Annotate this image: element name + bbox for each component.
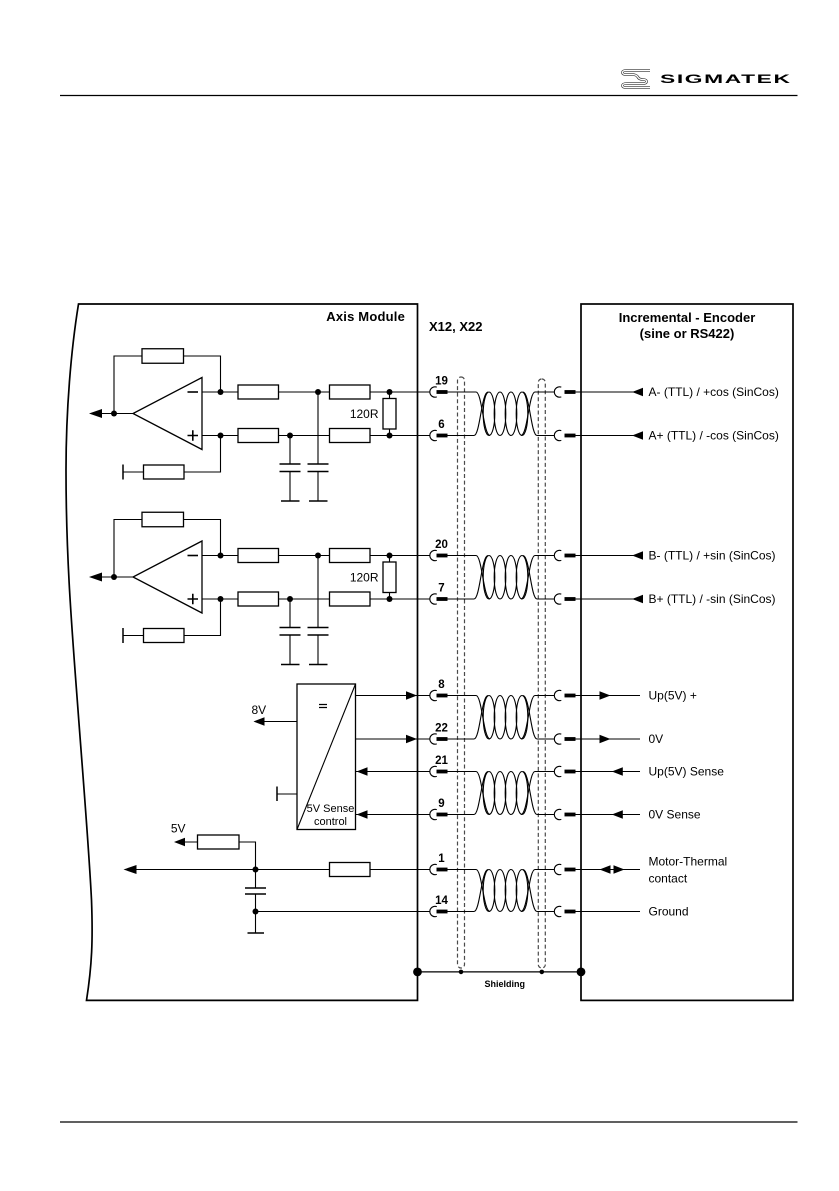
svg-text:21: 21 [435, 755, 448, 767]
output arrow U1 [89, 409, 102, 418]
wire non-inverting input row U2 [202, 598, 430, 600]
capacitor C2U1 plates [308, 464, 329, 472]
resistor pullup 5V [198, 835, 240, 849]
resistor feedback U1 [142, 349, 184, 364]
op-amp U2 minus sign [188, 555, 199, 557]
wire encoder row y=771.5 [576, 771, 641, 773]
bias terminal stub U1 [122, 465, 124, 480]
op-amp U1 feedback wire [114, 356, 221, 414]
svg-text:8: 8 [438, 679, 445, 691]
pin 1 contact (axis side) [430, 853, 448, 875]
svg-text:5V Sense: 5V Sense [307, 803, 355, 815]
wire encoder row y=739 [576, 738, 641, 740]
resistor series+ U1 [330, 429, 371, 443]
svg-text:(sine or RS422): (sine or RS422) [640, 326, 735, 341]
op-amp U2 feedback wire [114, 520, 221, 578]
wire 5V pullup [176, 842, 256, 870]
capacitor C1U2 wire [289, 599, 291, 665]
capacitor C1U1 wire [289, 436, 291, 502]
arrow left row y=814.5 [612, 810, 623, 818]
arrow motor-thermal left [124, 865, 137, 874]
pin 8 contact (axis side) [430, 679, 448, 701]
junction dots U2 [111, 553, 393, 603]
header rule [60, 95, 798, 97]
arrow left row y=771.5 [612, 767, 623, 775]
arrow 5V [174, 838, 185, 846]
encoder pin contact row y=771.5 [554, 766, 575, 776]
svg-text:B- (TTL) / +sin (SinCos): B- (TTL) / +sin (SinCos) [649, 549, 776, 563]
twisted pair cable A [448, 392, 555, 436]
op-amp U2 output wire [99, 576, 133, 578]
arrow left row y=435.5 [632, 431, 643, 439]
svg-text:Incremental - Encoder: Incremental - Encoder [619, 310, 756, 325]
junction dots thermal section [253, 867, 259, 915]
svg-text:contact: contact [649, 872, 688, 886]
op-amp U2 plus sign [188, 594, 199, 604]
resistor series- U2 [330, 549, 371, 563]
op-amp U1 output wire [99, 413, 133, 415]
svg-text:8V: 8V [251, 703, 266, 717]
wire encoder row y=695.5 [576, 695, 641, 697]
twisted pair cable supply [448, 696, 555, 740]
double arrow row y=869.5 [600, 865, 611, 873]
twisted pair cable thermal [448, 870, 555, 912]
arrow 8V [254, 717, 265, 725]
resistor input- U2 [238, 549, 279, 563]
svg-text:Up(5V) +: Up(5V) + [649, 689, 697, 703]
resistor series- U1 [330, 385, 371, 399]
capacitor C3 plates [245, 888, 266, 894]
resistor input+ U2 [238, 592, 279, 606]
svg-text:19: 19 [435, 375, 448, 387]
encoder box outline [581, 304, 793, 1000]
wire encoder row y=911.5 [576, 911, 641, 913]
svg-text:14: 14 [435, 895, 448, 907]
encoder pin contact row y=392 [554, 387, 575, 397]
svg-text:20: 20 [435, 539, 448, 551]
pin 14 contact (axis side) [430, 895, 449, 917]
shielding junction dot right [577, 968, 586, 977]
encoder pin contact row y=695.5 [554, 690, 575, 700]
twisted pair cable B [448, 556, 555, 600]
wire 8V input [256, 721, 297, 723]
wire ground row pin 14 [256, 911, 430, 913]
svg-text:22: 22 [435, 722, 448, 734]
junction dots U1 [111, 389, 393, 439]
pin 6 contact (axis side) [430, 419, 448, 441]
wire 5V supply to pin 8 [356, 695, 430, 697]
shielding bus wire [418, 971, 582, 973]
capacitor C2U1 ground tick [309, 500, 328, 502]
bias network wire U2 [123, 599, 221, 636]
svg-text:0V: 0V [649, 732, 664, 746]
pin 20 contact (axis side) [430, 539, 448, 561]
capacitor C2U2 plates [308, 628, 329, 636]
resistor 120R U1 [383, 399, 396, 430]
shielding junction dot left [413, 968, 422, 977]
wire encoder row y=599 [576, 598, 641, 600]
wire non-inverting input row U1 [202, 435, 430, 437]
ground stub bar [276, 787, 278, 802]
encoder pin contact row y=911.5 [554, 906, 575, 916]
termination wire U1 [389, 392, 391, 436]
svg-text:A+ (TTL) / -cos (SinCos): A+ (TTL) / -cos (SinCos) [649, 429, 779, 443]
bias network wire U1 [123, 436, 221, 473]
op-amp U1 minus sign [188, 391, 199, 393]
svg-text:5V: 5V [171, 822, 186, 836]
arrow into control block row 21 [357, 767, 368, 775]
encoder pin contact row y=555.5 [554, 550, 575, 560]
op-amp U1 triangle [133, 378, 202, 450]
arrow to pin 22 [406, 735, 417, 743]
svg-text:control: control [314, 816, 347, 828]
svg-text:Ground: Ground [649, 905, 689, 919]
cable shield dashed oval 1 [458, 377, 465, 968]
svg-text:SIGMATEK: SIGMATEK [660, 72, 791, 85]
arrow left row y=555.5 [632, 551, 643, 559]
svg-text:120R: 120R [350, 407, 379, 421]
wire inverting input row U1 [202, 391, 430, 393]
svg-text:A- (TTL) / +cos (SinCos): A- (TTL) / +cos (SinCos) [649, 385, 779, 399]
encoder pin contact row y=814.5 [554, 809, 575, 819]
svg-text:6: 6 [438, 419, 444, 431]
encoder pin contact row y=739 [554, 734, 575, 744]
capacitor C2U1 wire [317, 392, 319, 501]
wire motor-thermal row pin 1 [125, 869, 430, 871]
svg-text:Shielding: Shielding [485, 979, 526, 989]
op-amp U1 plus sign [188, 430, 199, 440]
svg-text:7: 7 [438, 582, 444, 594]
wire encoder row y=869.5 [576, 869, 641, 871]
footer rule [60, 1121, 798, 1123]
twisted pair cable sense [448, 772, 555, 815]
capacitor C1U2 ground tick [281, 664, 300, 666]
resistor series+ U2 [330, 592, 371, 606]
capacitor C1U1 ground tick [281, 500, 300, 502]
resistor bias U2 [144, 629, 185, 643]
encoder pin contact row y=435.5 [554, 430, 575, 440]
capacitor C1U2 plates [280, 628, 301, 636]
capacitor C2U2 wire [317, 556, 319, 665]
svg-text:1: 1 [438, 853, 445, 865]
capacitor C3 wires [255, 870, 257, 934]
svg-text:B+ (TTL) / -sin (SinCos): B+ (TTL) / -sin (SinCos) [649, 592, 776, 606]
svg-text:9: 9 [438, 798, 444, 810]
resistor bias U1 [144, 465, 185, 479]
ground tick [248, 932, 265, 934]
arrow left row y=599 [632, 595, 643, 603]
cable shield dashed oval 2 [538, 379, 545, 968]
svg-text:Up(5V) Sense: Up(5V) Sense [649, 765, 725, 779]
wire encoder row y=392 [576, 391, 641, 393]
resistor input+ U1 [238, 429, 279, 443]
arrow to pin 8 [406, 691, 417, 699]
axis module box outline [66, 304, 418, 1000]
bias terminal stub U2 [122, 628, 124, 643]
resistor thermal series [330, 863, 371, 877]
pin 22 contact (axis side) [430, 722, 448, 744]
wire pin 21 sense [356, 771, 430, 773]
svg-text:Motor-Thermal: Motor-Thermal [649, 855, 728, 869]
op-amp U2 triangle [133, 541, 202, 613]
wire encoder row y=435.5 [576, 435, 641, 437]
pin 7 contact (axis side) [430, 582, 448, 604]
svg-text:120R: 120R [350, 571, 379, 585]
capacitor C2U2 ground tick [309, 664, 328, 666]
wire 0V to pin 22 [356, 738, 430, 740]
resistor feedback U2 [142, 512, 184, 527]
ground stub wire at control block [277, 793, 297, 795]
arrow right row y=695.5 [600, 691, 611, 699]
arrow left row y=392 [632, 388, 643, 396]
arrow into control block row 9 [357, 810, 368, 818]
shield 2 tap dot [540, 970, 545, 975]
pin 21 contact (axis side) [430, 755, 449, 777]
pin 9 contact (axis side) [430, 798, 448, 820]
encoder pin contact row y=599 [554, 594, 575, 604]
svg-text:X12, X22: X12, X22 [429, 319, 483, 334]
svg-text:0V Sense: 0V Sense [649, 808, 701, 822]
svg-text:Axis Module: Axis Module [326, 309, 405, 324]
wire inverting input row U2 [202, 555, 430, 557]
termination wire U2 [389, 556, 391, 600]
arrow right row y=739 [600, 735, 611, 743]
resistor input- U1 [238, 385, 279, 399]
resistor 120R U2 [383, 562, 396, 593]
capacitor C1U1 plates [280, 464, 301, 472]
5V sense control block U3 [297, 684, 356, 830]
wire encoder row y=555.5 [576, 555, 641, 557]
pin 19 contact (axis side) [430, 375, 448, 397]
output arrow U2 [89, 573, 102, 582]
encoder pin contact row y=869.5 [554, 864, 575, 874]
wire encoder row y=814.5 [576, 814, 641, 816]
wire pin 9 sense [356, 814, 430, 816]
sigmatek logo mark [623, 71, 651, 88]
shield 1 tap dot [459, 970, 464, 975]
